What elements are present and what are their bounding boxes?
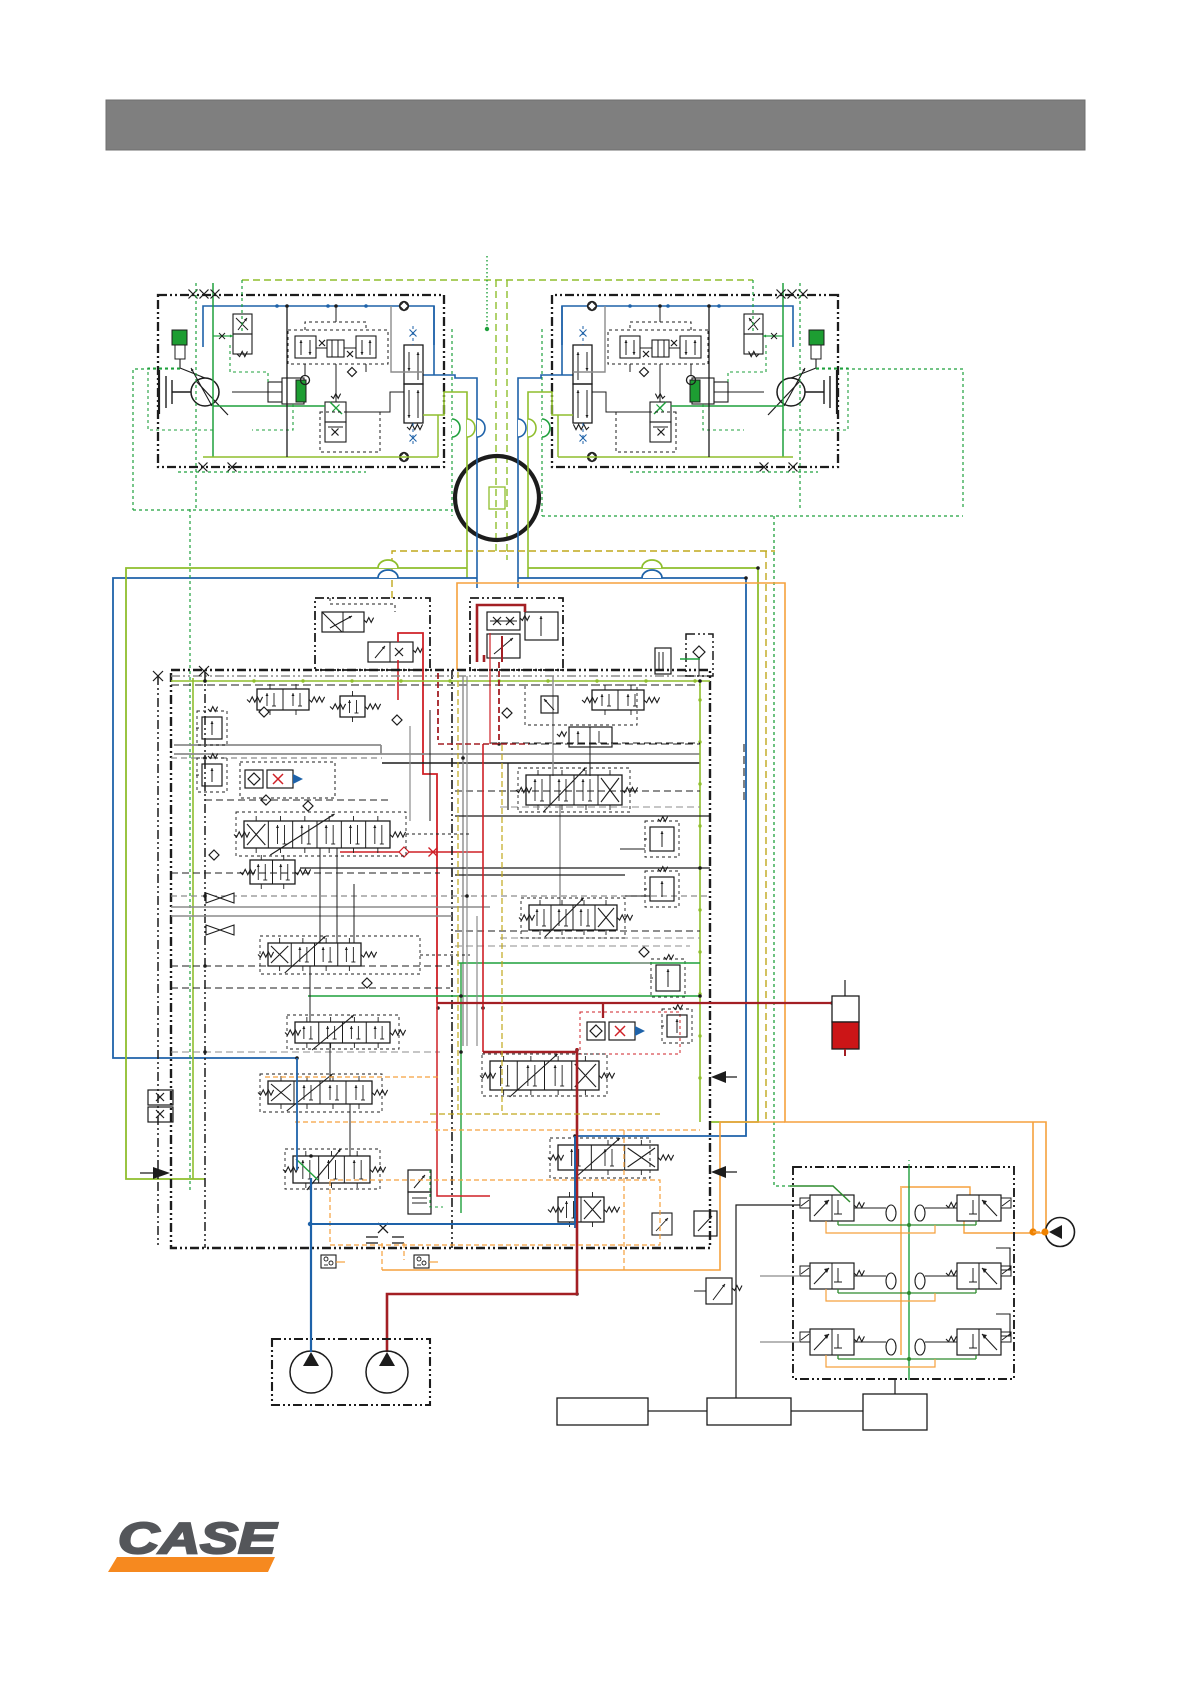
dashed box row E — [287, 1015, 399, 1049]
valve small bottom — [408, 1170, 431, 1192]
top dashed yellow-green interconnect line — [242, 279, 753, 281]
dashed box R2 — [518, 768, 630, 812]
connector box 1 — [557, 1398, 648, 1425]
wire blue inside block — [574, 1136, 576, 1224]
trunk blue left — [113, 578, 477, 1058]
yg dashed drop left block — [241, 280, 243, 332]
main spool valve row F — [268, 1081, 372, 1104]
gray vertical rail — [462, 676, 464, 1046]
green rail pilot block — [908, 1167, 910, 1380]
valve R1 relief — [541, 696, 558, 713]
gray rail right half — [552, 676, 554, 776]
left inner yellow-green rail — [192, 678, 194, 1179]
relief stack right a — [650, 827, 674, 851]
header title bar — [106, 100, 1085, 150]
orange rail pilot block — [900, 1186, 902, 1355]
gray dashed rail 2 — [171, 895, 710, 897]
dashed box row D — [260, 936, 420, 974]
trunk blue right — [518, 578, 746, 1228]
pilot solenoid valve block border — [793, 1167, 1014, 1379]
gray mid rail solid — [174, 753, 700, 755]
main block top gray rail — [171, 675, 710, 677]
connector box 2 — [707, 1398, 791, 1425]
solenoid valve right row 2 — [957, 1263, 1001, 1289]
black arrow marker right 1 — [714, 1076, 737, 1078]
dashed rails left half — [171, 965, 450, 967]
wire red spool B tail — [340, 851, 483, 853]
wire blue right travel to swivel — [518, 375, 555, 588]
solenoid valve right row 3 — [957, 1329, 1001, 1355]
black arrow marker left — [140, 1172, 163, 1174]
gray stub solenoid row2 — [760, 1275, 800, 1277]
wire green into pilot block — [790, 1186, 850, 1202]
main spool valve R2 — [526, 775, 622, 805]
black elbow right valve row2 — [996, 1248, 1010, 1270]
dashed box row G — [285, 1149, 380, 1189]
shutoff bowtie 2 — [206, 925, 220, 935]
gray vertical second — [466, 676, 468, 1046]
relief valve cluster top-left — [202, 717, 222, 739]
dashed green swivel drop left — [451, 329, 453, 516]
green vertical center — [460, 963, 462, 1213]
pilot element red cross right — [580, 1012, 680, 1054]
wire red pilot box B loop — [477, 605, 525, 662]
dashed rails right half — [490, 742, 700, 744]
wire dashed dark red — [438, 743, 529, 745]
coil row 3 — [886, 1339, 896, 1355]
wire black to solenoid block — [736, 1205, 800, 1398]
black dashed rail top — [171, 684, 700, 686]
main spool valve row B — [244, 821, 390, 848]
flow valve left edge — [148, 1090, 173, 1105]
wire yellow-green left travel to swivel — [438, 392, 467, 578]
check valve box top right corner — [686, 634, 713, 676]
relief R4 — [656, 965, 680, 991]
valve A2 — [257, 689, 309, 710]
pilot boundary dashed green right outer — [816, 369, 963, 510]
relief valve bottom right corner — [706, 1278, 732, 1304]
center dashed yellow-green drop lines — [495, 280, 497, 551]
olive center vertical — [501, 745, 503, 1114]
main control valve block border — [171, 670, 710, 1248]
pilot element red cross — [240, 762, 335, 798]
olive dashed verticals — [457, 672, 459, 1114]
gray stub solenoid row3 — [760, 1341, 800, 1343]
gray rail 4 — [171, 915, 452, 917]
valve R1b — [569, 727, 612, 747]
solenoid valve right row 1 — [957, 1195, 1001, 1221]
svg-text:CASE: CASE — [118, 1514, 278, 1563]
drain symbol 1 — [321, 1255, 336, 1268]
trunk yellow-green left — [126, 568, 467, 1179]
coil row 2 — [886, 1273, 896, 1289]
wire dashed orange net — [265, 1076, 438, 1078]
main spool valve row G travel — [293, 1156, 370, 1183]
main block yellow-green rail — [171, 680, 710, 682]
wire blue pump 1 — [310, 1248, 312, 1352]
trunk orange main — [457, 583, 1046, 1230]
main spool valve row E — [295, 1022, 390, 1043]
dashed box row B — [236, 812, 406, 856]
gray rail 3 — [171, 906, 490, 908]
dashed box R6 — [482, 1054, 607, 1096]
accumulator — [844, 980, 846, 996]
travel motor block left — [148, 283, 444, 472]
dashed green bottom interconnect left — [133, 509, 452, 511]
trunk dashed olive right — [507, 550, 775, 552]
trunk yellow-green right — [528, 568, 758, 1122]
left inner dashed green rail — [189, 509, 191, 1190]
pump box — [272, 1339, 430, 1405]
pilot pump circle — [1046, 1218, 1075, 1247]
pilot block internal wires — [838, 1224, 976, 1226]
valve row C — [250, 860, 295, 884]
dashed box row F — [260, 1074, 382, 1112]
black elbow right valve row3 — [996, 1314, 1010, 1336]
yellow-green rail right column — [699, 681, 701, 1122]
connector box 3 — [863, 1394, 927, 1430]
pilot valve box B — [470, 598, 563, 670]
black rails right half — [455, 815, 710, 817]
main pump 2 — [366, 1351, 408, 1393]
CASE logo orange bar — [108, 1557, 275, 1572]
restrictor top right — [655, 648, 671, 674]
dashed box R1 — [525, 685, 637, 725]
wire yellow-green right travel to swivel — [528, 392, 558, 578]
wire red from pilot box A — [398, 633, 437, 1003]
relief valve A5 — [202, 764, 222, 786]
trunk dashed green right down to pilot valve block — [774, 516, 790, 1186]
swivel joint port stub — [489, 487, 505, 509]
relief stack right b — [650, 877, 674, 901]
main pump 1 — [290, 1351, 332, 1393]
ladder verticals left half — [319, 848, 321, 943]
hose hop arcs — [378, 560, 398, 568]
travel motor block right (mirrored) — [552, 283, 848, 472]
valve A3 — [340, 696, 365, 717]
dashed green bottom interconnect right — [542, 515, 963, 517]
main spool valve row D — [268, 943, 361, 966]
wire red accumulator drain — [844, 1049, 846, 1056]
swivel joint circle — [455, 456, 539, 540]
dashed box R3 — [521, 898, 625, 938]
main spool valve R6 — [490, 1061, 599, 1090]
wire dark red accumulator feed — [437, 1002, 832, 1004]
solenoid valve left row 1 — [810, 1195, 854, 1221]
solenoid valve left row 3 — [810, 1329, 854, 1355]
wire dark red pump line — [387, 1048, 577, 1352]
shutoff bowtie 1 — [206, 893, 220, 903]
wire blue left travel to swivel — [441, 375, 477, 588]
coil row 1 — [886, 1205, 896, 1221]
relief R5b — [667, 1015, 687, 1037]
main spool valve R3 — [529, 905, 617, 930]
main spool valve R7 — [558, 1145, 658, 1170]
gray dashed rail 1 — [171, 757, 382, 759]
dashed green swivel drop right — [541, 329, 543, 516]
main block divider — [451, 670, 453, 1248]
valve R8 — [558, 1197, 604, 1222]
valve R1 — [592, 690, 644, 710]
pilot supply dashed vertical to swivel — [486, 256, 488, 329]
dashed box R7 — [550, 1138, 650, 1178]
right column link lines — [620, 848, 645, 850]
check valve diamonds — [259, 707, 269, 717]
black mid rail solid — [382, 762, 700, 764]
green cross rail 2 — [308, 995, 700, 997]
black arrow marker right 2 — [714, 1171, 737, 1173]
pilot boundary dashed green left outer — [133, 369, 180, 510]
gray vertical third — [476, 916, 478, 1046]
junction dots — [203, 679, 207, 683]
yg dashed drop right block — [752, 280, 754, 332]
solenoid valve left row 2 — [810, 1263, 854, 1289]
wire connector boxes — [648, 1410, 707, 1412]
green cross rail 1 — [458, 962, 700, 964]
left inner dash-dot divider — [204, 672, 206, 1248]
pilot boundary dashed green right vertical — [799, 283, 801, 509]
valve R9 — [694, 1211, 717, 1236]
valve R9b — [652, 1213, 672, 1235]
wire red center verticals — [437, 1003, 490, 1196]
restrictor symbols orange — [366, 1236, 378, 1238]
pilot boundary dashed green left vertical — [195, 283, 197, 509]
drain symbol 2 — [414, 1255, 429, 1268]
pilot valve box A — [315, 598, 430, 670]
x mark block corner — [199, 666, 209, 676]
trunk orange lower — [382, 1122, 785, 1270]
